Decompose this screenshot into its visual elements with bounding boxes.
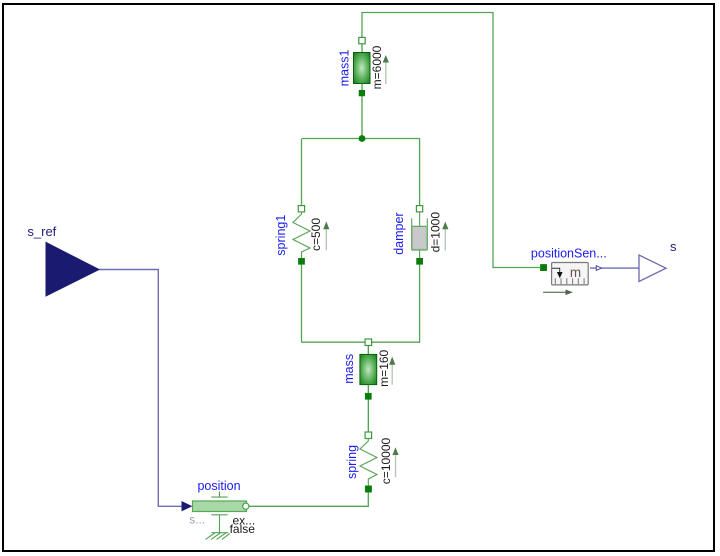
s_ref triangle xyxy=(46,243,99,297)
svg-text:m: m xyxy=(570,265,581,280)
svg-text:s...: s... xyxy=(189,513,205,527)
wire loop left vertical (to spring1) xyxy=(301,139,303,206)
spring flange_a port xyxy=(365,432,372,439)
spring xyxy=(345,432,399,492)
damper direction arrow xyxy=(444,229,446,251)
position support bar above xyxy=(211,496,227,498)
damper rod xyxy=(419,212,421,227)
positionSensor inner pointer arrowhead xyxy=(557,272,563,278)
position support bar below xyxy=(211,514,227,516)
node junction dot xyxy=(359,135,366,142)
svg-text:spring: spring xyxy=(345,445,359,479)
svg-text:s: s xyxy=(670,239,677,254)
ground hatch 1 xyxy=(206,533,215,539)
positionSensor ruler tick 2 xyxy=(560,278,562,284)
svg-text:false: false xyxy=(230,522,256,536)
wire spring bottom to position actuator xyxy=(246,492,368,506)
positionSensor output port triangle xyxy=(596,266,601,271)
mass1 U1 xyxy=(338,37,389,96)
position support tick vertical above xyxy=(219,492,221,498)
ground hatch 3 xyxy=(217,533,226,539)
wire signal s_ref to position actuator xyxy=(99,270,182,507)
positionSensor body xyxy=(552,263,589,285)
positionSensor ruler tick 4 xyxy=(572,278,574,284)
positionSensor xyxy=(531,247,607,296)
mass1 direction arrow xyxy=(385,62,387,84)
positionSensor ruler tick 6 xyxy=(583,278,585,284)
position body xyxy=(193,501,247,512)
damper cylinder left wall xyxy=(411,218,413,250)
s_ref input connector xyxy=(27,224,99,296)
damper cylinder bottom xyxy=(412,249,428,251)
damper flange_b port xyxy=(417,258,423,264)
position input arrowhead xyxy=(182,501,193,511)
svg-text:m=160: m=160 xyxy=(377,349,391,386)
wire mass bottom to spring top xyxy=(367,400,369,433)
svg-text:position: position xyxy=(197,479,240,493)
mass rod bottom xyxy=(367,385,369,393)
s output connector xyxy=(639,239,677,282)
svg-text:mass: mass xyxy=(342,354,356,384)
mass1 flange_a port xyxy=(359,37,365,43)
wire loop bottom rail xyxy=(302,341,421,343)
damper cylinder right wall xyxy=(426,218,428,250)
spring1 coil xyxy=(293,212,310,258)
damper bottom rod xyxy=(419,250,421,258)
svg-text:c=500: c=500 xyxy=(309,218,323,251)
ground hatch 4 xyxy=(222,533,230,539)
spring1 xyxy=(274,206,329,265)
mass rod top xyxy=(367,346,369,355)
wire spring1 bottom to loop bottom rail xyxy=(301,264,303,342)
spring1 flange_a port xyxy=(298,206,304,212)
positionSensor ruler tick 5 xyxy=(577,278,579,284)
mass1 body xyxy=(354,53,371,84)
svg-text:mass1: mass1 xyxy=(338,50,352,87)
position flange circle xyxy=(243,503,249,509)
wire from mass1 top to positionSensor (top rail) xyxy=(362,13,540,268)
positionSensor ruler tick 1 xyxy=(554,278,556,284)
mass1 flange_b port xyxy=(359,90,365,96)
wire damper bottom to loop bottom rail xyxy=(419,264,421,342)
wire mass1 bottom to junction xyxy=(361,96,363,139)
mass xyxy=(342,346,395,400)
svg-text:c=10000: c=10000 xyxy=(379,437,393,484)
svg-text:d=1000: d=1000 xyxy=(428,212,442,253)
mass1 rod bottom xyxy=(361,84,363,91)
spring1 flange_b port xyxy=(298,258,304,264)
svg-text:positionSen...: positionSen... xyxy=(531,247,607,261)
position actuator xyxy=(182,479,256,539)
damper xyxy=(392,206,448,265)
positionSensor ruler tick 3 xyxy=(566,278,568,284)
ground hatch 2 xyxy=(211,533,220,539)
svg-text:damper: damper xyxy=(392,212,406,254)
wire loop right vertical (to damper) xyxy=(419,139,421,206)
spring direction arrow xyxy=(395,455,397,478)
damper piston xyxy=(412,226,426,249)
damper piston top line xyxy=(412,225,426,227)
position support stem xyxy=(219,515,221,533)
damper flange_a port xyxy=(416,206,422,212)
positionSensor flange port xyxy=(540,264,546,270)
mass1 rod top xyxy=(361,44,363,53)
ground plate xyxy=(212,532,229,534)
s triangle xyxy=(639,255,666,282)
wire signal sensor output to s xyxy=(590,267,639,269)
svg-text:s_ref: s_ref xyxy=(27,224,56,239)
svg-text:m=6000: m=6000 xyxy=(370,45,384,89)
spring flange_b port xyxy=(365,486,371,492)
svg-text:spring1: spring1 xyxy=(274,215,288,256)
mass flange_b port xyxy=(365,393,371,399)
mass body xyxy=(360,354,377,384)
positionSensor inner pointer line xyxy=(552,268,560,272)
wire loop top rail xyxy=(302,138,420,140)
node port at loop bottom (mass flange_a) xyxy=(365,339,372,346)
mass direction arrow xyxy=(391,364,393,384)
positionSensor direction arrow xyxy=(543,291,566,293)
spring coil xyxy=(360,439,377,486)
spring1 direction arrow xyxy=(325,229,327,251)
